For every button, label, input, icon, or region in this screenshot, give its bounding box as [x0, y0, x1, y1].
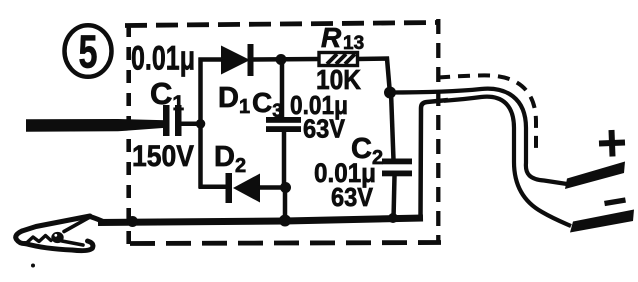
resistor R13 [319, 53, 358, 66]
figure number 5 circle [65, 25, 112, 77]
svg-text:63V: 63V [303, 114, 346, 144]
cable dashed outline [438, 75, 536, 155]
junction node output [384, 87, 396, 99]
junction node top of C3 [276, 54, 287, 65]
junction node rail left [127, 216, 138, 227]
svg-text:63V: 63V [331, 182, 374, 212]
input probe wire [26, 119, 166, 132]
wire C1 to node [181, 122, 203, 127]
svg-text:13: 13 [343, 33, 364, 54]
svg-text:0.01μ: 0.01μ [131, 40, 195, 78]
svg-text:5: 5 [79, 26, 98, 78]
ink speck [31, 264, 35, 268]
capacitor C1 [163, 105, 182, 136]
capacitor C2 [382, 92, 412, 219]
wire to D1 anode [199, 57, 224, 62]
lower cable conductor [444, 97, 571, 226]
junction node C2 rail [388, 213, 398, 223]
junction node rail [279, 215, 291, 227]
vertical wire node to D1/D2 branches [198, 58, 203, 189]
svg-text:10K: 10K [316, 64, 361, 95]
wire D2 to node [258, 185, 288, 190]
wire node to ground rail [283, 187, 288, 220]
plus sign [599, 130, 625, 157]
minus sign [605, 200, 626, 204]
ground return rail [98, 218, 423, 223]
wire R13 to output node [357, 59, 390, 89]
junction node D2/C3 [280, 182, 291, 193]
diode D2 [226, 173, 261, 203]
junction node C1 output [196, 119, 206, 129]
clip pivot [51, 232, 63, 243]
negative lead tip [570, 210, 634, 233]
alligator clip [16, 216, 104, 251]
wire D1 to R13 [252, 57, 320, 62]
positive lead tip [565, 162, 625, 190]
upper cable conductor [388, 89, 567, 184]
svg-text:150V: 150V [132, 140, 194, 173]
diode D1 [221, 44, 254, 76]
capacitor C3 [266, 60, 301, 190]
wire to D2 [199, 185, 229, 190]
riser wire to lower cable conductor [421, 100, 449, 219]
svg-text:R: R [321, 22, 342, 53]
dashed enclosure box [125, 19, 441, 244]
